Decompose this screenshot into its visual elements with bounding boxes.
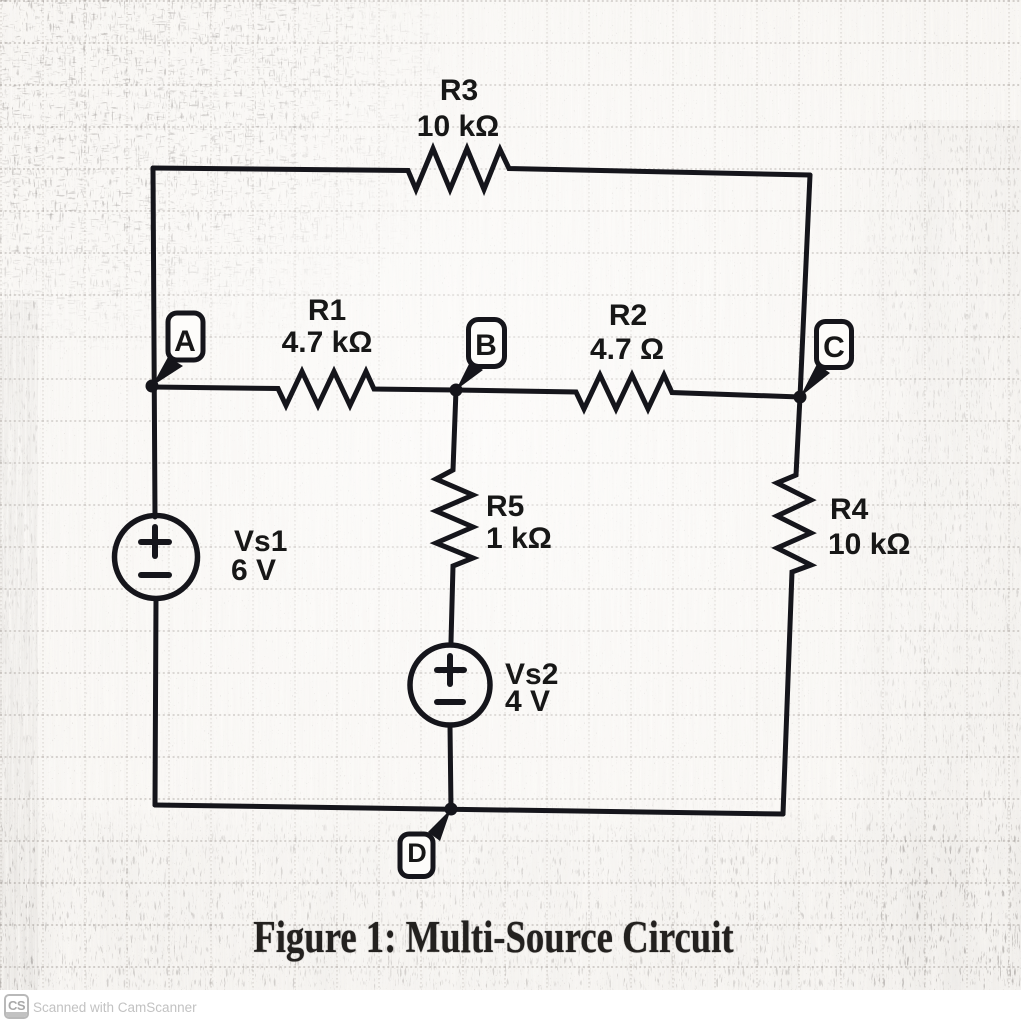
svg-text:R5: R5: [486, 490, 524, 523]
svg-text:1 kΩ: 1 kΩ: [486, 522, 552, 555]
svg-text:B: B: [475, 329, 497, 362]
svg-text:A: A: [174, 325, 196, 358]
svg-text:4 V: 4 V: [505, 685, 550, 718]
svg-text:R4: R4: [830, 493, 869, 526]
svg-text:4.7 kΩ: 4.7 kΩ: [282, 326, 373, 359]
svg-text:10 kΩ: 10 kΩ: [828, 528, 910, 561]
svg-text:6 V: 6 V: [231, 554, 276, 587]
svg-text:R3: R3: [440, 74, 478, 107]
svg-text:R1: R1: [308, 294, 346, 327]
svg-text:10 kΩ: 10 kΩ: [417, 110, 499, 143]
svg-text:R2: R2: [609, 299, 647, 332]
svg-text:4.7 Ω: 4.7 Ω: [590, 333, 664, 366]
svg-text:C: C: [823, 331, 845, 364]
svg-text:D: D: [407, 838, 427, 868]
